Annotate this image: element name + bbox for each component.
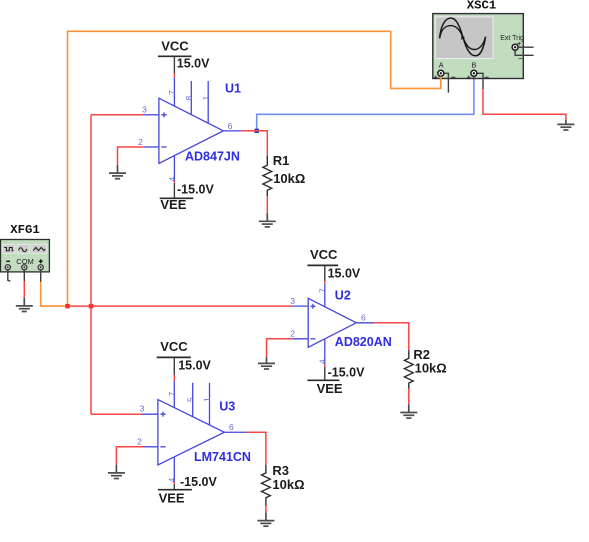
- Ext Trig terminal: [512, 44, 518, 50]
- node junction J2 (red): [89, 304, 94, 309]
- minus input marker: [310, 338, 315, 340]
- waveform arrow marker: [461, 35, 465, 40]
- minus stub: [8, 270, 11, 281]
- wire U2 output (red): [374, 323, 409, 350]
- wire XFG1 plus output (orange): [41, 282, 68, 306]
- wire U2 pin2 to ground (red): [267, 339, 293, 358]
- svg-text:XFG1: XFG1: [10, 223, 40, 237]
- svg-text:4: 4: [167, 177, 177, 182]
- svg-text:U3: U3: [219, 399, 235, 413]
- function generator XFG1: [1, 223, 50, 312]
- svg-text:10kΩ: 10kΩ: [272, 477, 304, 492]
- svg-text:U2: U2: [335, 289, 351, 303]
- svg-text:8: 8: [184, 96, 194, 101]
- svg-text:15.0V: 15.0V: [178, 358, 211, 372]
- pin 6 output stub: [223, 130, 241, 132]
- ground at U3 pin2: [108, 465, 125, 479]
- plus input marker: [161, 112, 166, 117]
- svg-text:R3: R3: [272, 463, 289, 478]
- svg-text:A: A: [439, 61, 444, 70]
- plus terminal: [38, 265, 43, 270]
- ground below R1: [259, 213, 276, 227]
- svg-text:7: 7: [167, 392, 177, 397]
- pin 6 output stub: [356, 322, 374, 324]
- U1 triangle body: [159, 98, 223, 163]
- ground at U1 pin2: [109, 165, 126, 179]
- svg-text:-15.0V: -15.0V: [328, 366, 365, 380]
- ground at U2 pin2: [258, 357, 275, 369]
- R1 body zigzag: [263, 156, 272, 197]
- channel A terminal: [438, 70, 444, 76]
- Ext Trig minus stub: [515, 50, 534, 55]
- op-amp U2 AD820AN: [258, 247, 409, 396]
- pin 7 VCC wire (black/red/blue): [173, 56, 175, 73]
- svg-text:6: 6: [361, 313, 366, 323]
- wire red riser J2 up to U1 / down to U3: [90, 115, 92, 414]
- square-wave icon: [3, 245, 15, 254]
- pin 8 stub: [190, 81, 192, 115]
- svg-text:7: 7: [317, 288, 327, 293]
- ground below R3: [257, 512, 274, 526]
- minus terminal: [5, 265, 10, 270]
- wire U1 output (red): [241, 131, 267, 156]
- svg-text:VEE: VEE: [160, 197, 186, 212]
- op-amp U1 AD847JN: [109, 39, 267, 213]
- svg-text:7: 7: [167, 90, 177, 95]
- wire U3 pin2 to ground (red): [116, 447, 143, 465]
- pin 1 stub: [209, 383, 211, 425]
- svg-text:VEE: VEE: [159, 491, 185, 506]
- ground at scope channel B minus: [557, 120, 574, 130]
- ground below R2: [400, 404, 417, 418]
- wire R1 to ground (red): [266, 196, 268, 213]
- U2 triangle body: [308, 298, 356, 347]
- pin 2 stub: [143, 446, 158, 448]
- svg-text:AD847JN: AD847JN: [185, 149, 240, 163]
- svg-text:6: 6: [229, 422, 234, 432]
- pin 3 stub: [292, 305, 308, 307]
- plus terminal label: [39, 259, 43, 263]
- resistor R1: [259, 153, 306, 227]
- wire red bus to U2 pin3: [68, 305, 293, 307]
- svg-text:VCC: VCC: [161, 39, 189, 54]
- pin 5 stub: [192, 383, 194, 417]
- svg-text:VCC: VCC: [160, 339, 188, 354]
- ground below COM: [16, 298, 33, 312]
- channel B minus tick: [485, 76, 489, 78]
- svg-text:VCC: VCC: [310, 247, 338, 262]
- svg-text:XSC1: XSC1: [467, 0, 497, 12]
- COM stub: [23, 270, 25, 281]
- svg-text:VEE: VEE: [317, 381, 343, 396]
- wire R3 to ground (red): [265, 506, 267, 513]
- screen waveform trace 1: [440, 18, 486, 56]
- svg-text:4: 4: [167, 478, 177, 483]
- wire COM to ground (red): [23, 281, 25, 298]
- wire orange riser to scope channel A: [68, 31, 441, 306]
- svg-text:U1: U1: [225, 81, 241, 95]
- pin 7 VCC wire: [324, 265, 326, 281]
- pin 3 stub: [142, 413, 158, 415]
- svg-text:6: 6: [228, 121, 233, 131]
- wire to U1 pin3: [91, 114, 144, 116]
- U3 triangle body: [158, 400, 225, 465]
- channel A minus tick: [451, 76, 455, 78]
- svg-text:3: 3: [140, 404, 145, 414]
- channel A plus stub: [440, 77, 442, 89]
- svg-text:4: 4: [317, 359, 327, 364]
- XSC1 body: [433, 14, 524, 79]
- minus input marker: [161, 146, 166, 148]
- plus stub: [40, 270, 42, 282]
- oscilloscope XSC1: [433, 0, 534, 93]
- wire R2 to ground (red): [408, 389, 410, 405]
- svg-text:10kΩ: 10kΩ: [415, 361, 447, 376]
- XFG1 body: [1, 240, 50, 272]
- sine-wave icon: [17, 245, 29, 254]
- channel B plus stub: [473, 77, 475, 80]
- Ext Trig plus stub: [518, 46, 533, 48]
- wire U3 output (red): [247, 432, 266, 465]
- node junction U1 output (blue): [255, 129, 259, 133]
- pin 4 VEE wire: [173, 457, 175, 482]
- COM terminal: [22, 265, 27, 270]
- pin 1 stub: [207, 81, 209, 124]
- wire U1 output to scope channel B (blue): [257, 80, 474, 131]
- svg-text:3: 3: [290, 296, 295, 306]
- svg-text:LM741CN: LM741CN: [194, 450, 251, 464]
- channel B minus stub: [477, 73, 483, 89]
- triangle-wave icon: [32, 245, 47, 254]
- pin 2 stub: [144, 146, 159, 148]
- R2 body zigzag: [404, 350, 413, 388]
- svg-text:15.0V: 15.0V: [177, 57, 210, 71]
- svg-text:1: 1: [201, 96, 211, 101]
- pin 7 VCC wire: [173, 357, 175, 375]
- svg-text:R1: R1: [273, 153, 290, 168]
- Ext Trig minus tick: [519, 58, 523, 60]
- minus terminal label: [6, 260, 10, 262]
- svg-text:-15.0V: -15.0V: [180, 475, 217, 489]
- screen waveform trace 2: [440, 26, 486, 50]
- minus input marker: [160, 446, 165, 448]
- channel A plus tick: [434, 76, 438, 80]
- svg-text:3: 3: [142, 104, 147, 114]
- XSC1 screen: [435, 17, 493, 59]
- channel A minus stub: [444, 73, 448, 92]
- wire scope channel B minus to ground (red): [483, 89, 566, 120]
- wire to U3 pin3: [91, 413, 142, 415]
- resistor R3: [257, 463, 304, 526]
- svg-text:B: B: [471, 61, 476, 70]
- channel B plus tick: [467, 76, 471, 80]
- svg-text:Ext Trig: Ext Trig: [500, 35, 524, 42]
- svg-text:AD820AN: AD820AN: [335, 335, 392, 349]
- Ext Trig plus tick: [517, 42, 520, 45]
- pin 3 stub: [144, 114, 159, 116]
- R3 body zigzag: [262, 465, 271, 506]
- plus input marker: [160, 412, 165, 417]
- svg-text:10kΩ: 10kΩ: [273, 171, 305, 186]
- plus input marker: [310, 304, 315, 309]
- resistor R2: [400, 347, 446, 418]
- svg-text:5: 5: [185, 397, 195, 402]
- svg-text:-15.0V: -15.0V: [177, 183, 214, 197]
- pin 2 stub: [292, 338, 308, 340]
- node junction J1 (orange/red): [65, 304, 70, 309]
- svg-text:2: 2: [138, 137, 143, 147]
- svg-text:2: 2: [290, 328, 295, 338]
- pin 4 VEE wire: [324, 339, 326, 364]
- pin 4 VEE wire: [173, 155, 175, 181]
- svg-text:15.0V: 15.0V: [328, 267, 361, 281]
- wire U1 pin2 to ground (red): [118, 147, 145, 165]
- op-amp U3 LM741CN: [108, 339, 266, 506]
- svg-text:1: 1: [202, 397, 212, 402]
- pin 6 output stub: [224, 431, 246, 433]
- channel B terminal: [471, 70, 477, 76]
- svg-text:2: 2: [137, 437, 142, 447]
